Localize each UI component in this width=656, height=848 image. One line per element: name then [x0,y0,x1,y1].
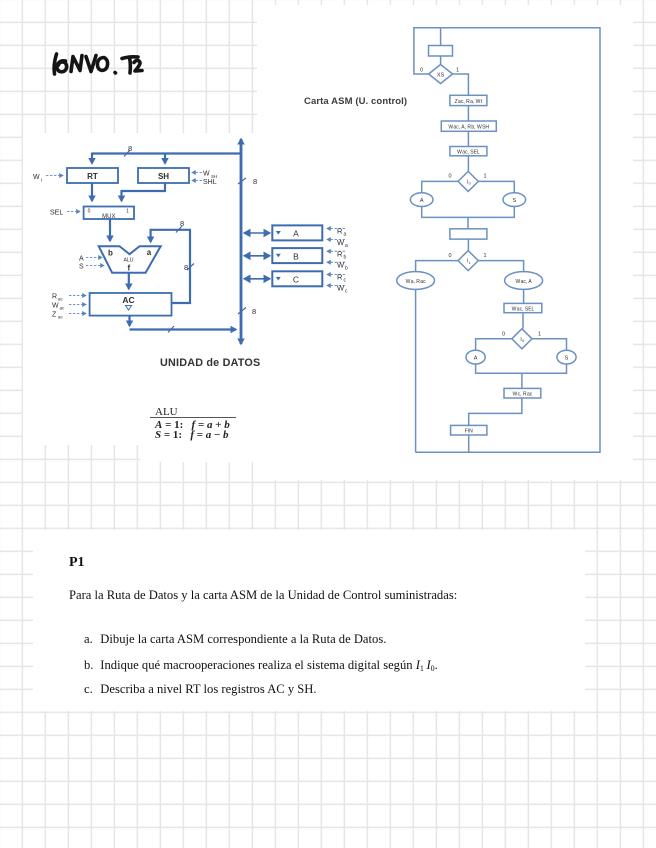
svg-text:8: 8 [253,177,257,186]
svg-text:A: A [420,198,424,204]
svg-text:1: 1 [483,174,486,180]
svg-text:t: t [41,178,43,183]
svg-text:XS: XS [437,73,445,79]
svg-text:W ac, A, R b, W SH: W ac, A, R b, W SH [448,125,489,131]
svg-text:f: f [127,264,130,273]
svg-text:8: 8 [128,144,132,153]
svg-text:1: 1 [456,68,459,74]
svg-text:0: 0 [420,68,423,74]
svg-text:MUX: MUX [102,214,115,220]
svg-text:B: B [293,251,299,261]
svg-text:a: a [147,248,152,257]
svg-text:C: C [293,275,299,285]
svg-text:W ac, SEL: W ac, SEL [457,150,480,156]
svg-text:0: 0 [522,339,524,343]
svg-text:0: 0 [448,174,451,180]
svg-text:W ac, SEL: W ac, SEL [512,307,535,313]
svg-text:R: R [337,250,343,259]
svg-text:0: 0 [448,253,451,259]
svg-text:A: A [474,355,478,361]
svg-text:W c, R ac: W c, R ac [513,392,533,398]
svg-text:c: c [345,289,348,295]
svg-text:R: R [52,294,57,301]
svg-text:W: W [52,303,59,310]
svg-text:A: A [293,229,299,239]
svg-text:W: W [337,284,345,293]
svg-text:W: W [203,171,210,178]
svg-text:ac: ac [60,306,66,311]
svg-text:W ac, A: W ac, A [515,279,532,285]
svg-text:0: 0 [88,209,91,215]
svg-text:S: S [79,264,84,271]
svg-text:1: 1 [469,261,471,265]
svg-text:RT: RT [87,172,98,181]
svg-text:8: 8 [184,263,188,272]
svg-text:1: 1 [538,332,541,338]
svg-text:FIN: FIN [465,429,473,435]
svg-text:W: W [33,174,40,181]
svg-text:8: 8 [180,219,184,228]
svg-text:b: b [108,249,113,258]
svg-text:S: S [512,198,516,204]
svg-text:W: W [337,261,345,270]
svg-text:AC: AC [122,295,134,305]
svg-text:S: S [565,355,569,361]
svg-text:SEL: SEL [50,210,63,217]
svg-text:a: a [345,243,348,249]
svg-text:a: a [344,232,347,238]
svg-text:0: 0 [469,182,471,186]
svg-text:Z ac, R a, W t: Z ac, R a, W t [455,99,483,105]
svg-text:0: 0 [502,332,505,338]
svg-text:W: W [337,238,345,247]
svg-text:b: b [345,266,348,272]
svg-text:1: 1 [126,209,129,215]
svg-text:ac: ac [58,315,64,320]
svg-text:SH: SH [158,172,169,181]
svg-text:A: A [79,256,84,263]
svg-text:8: 8 [252,307,256,316]
svg-text:Z: Z [52,312,57,319]
svg-text:1: 1 [483,253,486,259]
svg-text:SHL: SHL [203,179,217,186]
svg-text:ac: ac [58,297,64,302]
svg-text:R: R [337,273,343,282]
svg-text:W a, R ac: W a, R ac [406,279,427,285]
svg-text:R: R [337,227,343,236]
